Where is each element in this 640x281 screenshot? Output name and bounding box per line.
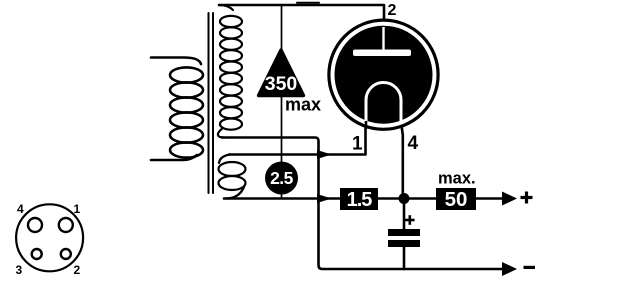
wire: tube pin 4 down to junction node <box>401 118 403 199</box>
output - arrowhead <box>502 262 517 276</box>
label - output <box>524 266 536 269</box>
junction hop mark at filament-top wire crossing <box>317 150 332 159</box>
svg-text:1: 1 <box>74 202 81 216</box>
capacitor C1 plus polarity sign <box>405 215 415 225</box>
wire: scan thickening on top wire <box>297 2 319 4</box>
svg-text:2.5: 2.5 <box>270 168 294 188</box>
svg-text:1.5: 1.5 <box>347 189 373 211</box>
wire: junction node to box 50 <box>404 197 436 200</box>
transformer T1 HV secondary winding <box>218 5 242 138</box>
rectifier tube V1 anode plate bar (white) <box>353 50 411 57</box>
junction hop mark at filament-bottom wire crossing <box>317 194 332 203</box>
output + arrowhead <box>502 192 517 206</box>
wire: capacitor bottom to rail <box>403 247 406 269</box>
capacitor C1 bottom plate <box>388 240 420 247</box>
capacitor max box 50 <box>436 188 476 210</box>
rectifier tube V1 filament inverted-U (white) <box>366 83 401 123</box>
label + output <box>521 192 533 204</box>
wire: filament winding top lead to tube pin 1 <box>229 128 366 155</box>
rectifier tube V1 filament leg stubs through glass <box>365 121 368 129</box>
transformer T1 primary winding <box>151 58 203 161</box>
svg-text:50: 50 <box>445 188 468 211</box>
transformer T1 core <box>209 13 214 193</box>
wire: annotation line through 350 triangle and 2.5 circle <box>281 5 283 199</box>
svg-text:3: 3 <box>16 263 23 277</box>
rectifier tube V1 glass envelope <box>329 20 438 129</box>
symbol: circle 2.5 (filament voltage) <box>265 162 298 195</box>
svg-text:4: 4 <box>408 133 419 154</box>
wire: box 50 to + output arrow <box>476 197 504 200</box>
transformer T1 filament winding 2.5V <box>219 155 246 199</box>
rectifier tube V1 black interior <box>335 26 433 124</box>
svg-text:2: 2 <box>74 263 81 277</box>
svg-text:max: max <box>285 95 321 115</box>
wire: filament winding bottom lead to resistor box 1.5 <box>224 197 340 200</box>
rectifier tube V1 anode top lead (white) <box>382 27 384 50</box>
svg-text:2: 2 <box>388 2 397 19</box>
wire: HV secondary bottom lead, down and to bottom rail <box>222 138 502 270</box>
socket base view circle <box>16 204 83 271</box>
junction node dot <box>399 193 410 204</box>
svg-text:1: 1 <box>352 134 363 155</box>
socket pin 2 hole (small right) <box>61 249 71 259</box>
socket pin 4 hole (large left) <box>28 218 42 232</box>
svg-text:350: 350 <box>265 73 298 95</box>
resistor box 1.5 <box>340 188 378 210</box>
svg-text:max.: max. <box>438 170 476 188</box>
wire: box 1.5 to junction node <box>378 197 404 200</box>
svg-text:4: 4 <box>17 202 24 216</box>
socket pin 3 hole (small left) <box>32 249 42 259</box>
wire: junction node down to capacitor <box>403 199 406 230</box>
socket pin 1 hole (large right) <box>59 218 73 232</box>
wire: HV secondary top to plate pin 2 <box>219 5 384 20</box>
capacitor C1 top plate <box>388 229 420 236</box>
symbol: triangle 350 max (max transformer voltage) <box>259 50 304 96</box>
